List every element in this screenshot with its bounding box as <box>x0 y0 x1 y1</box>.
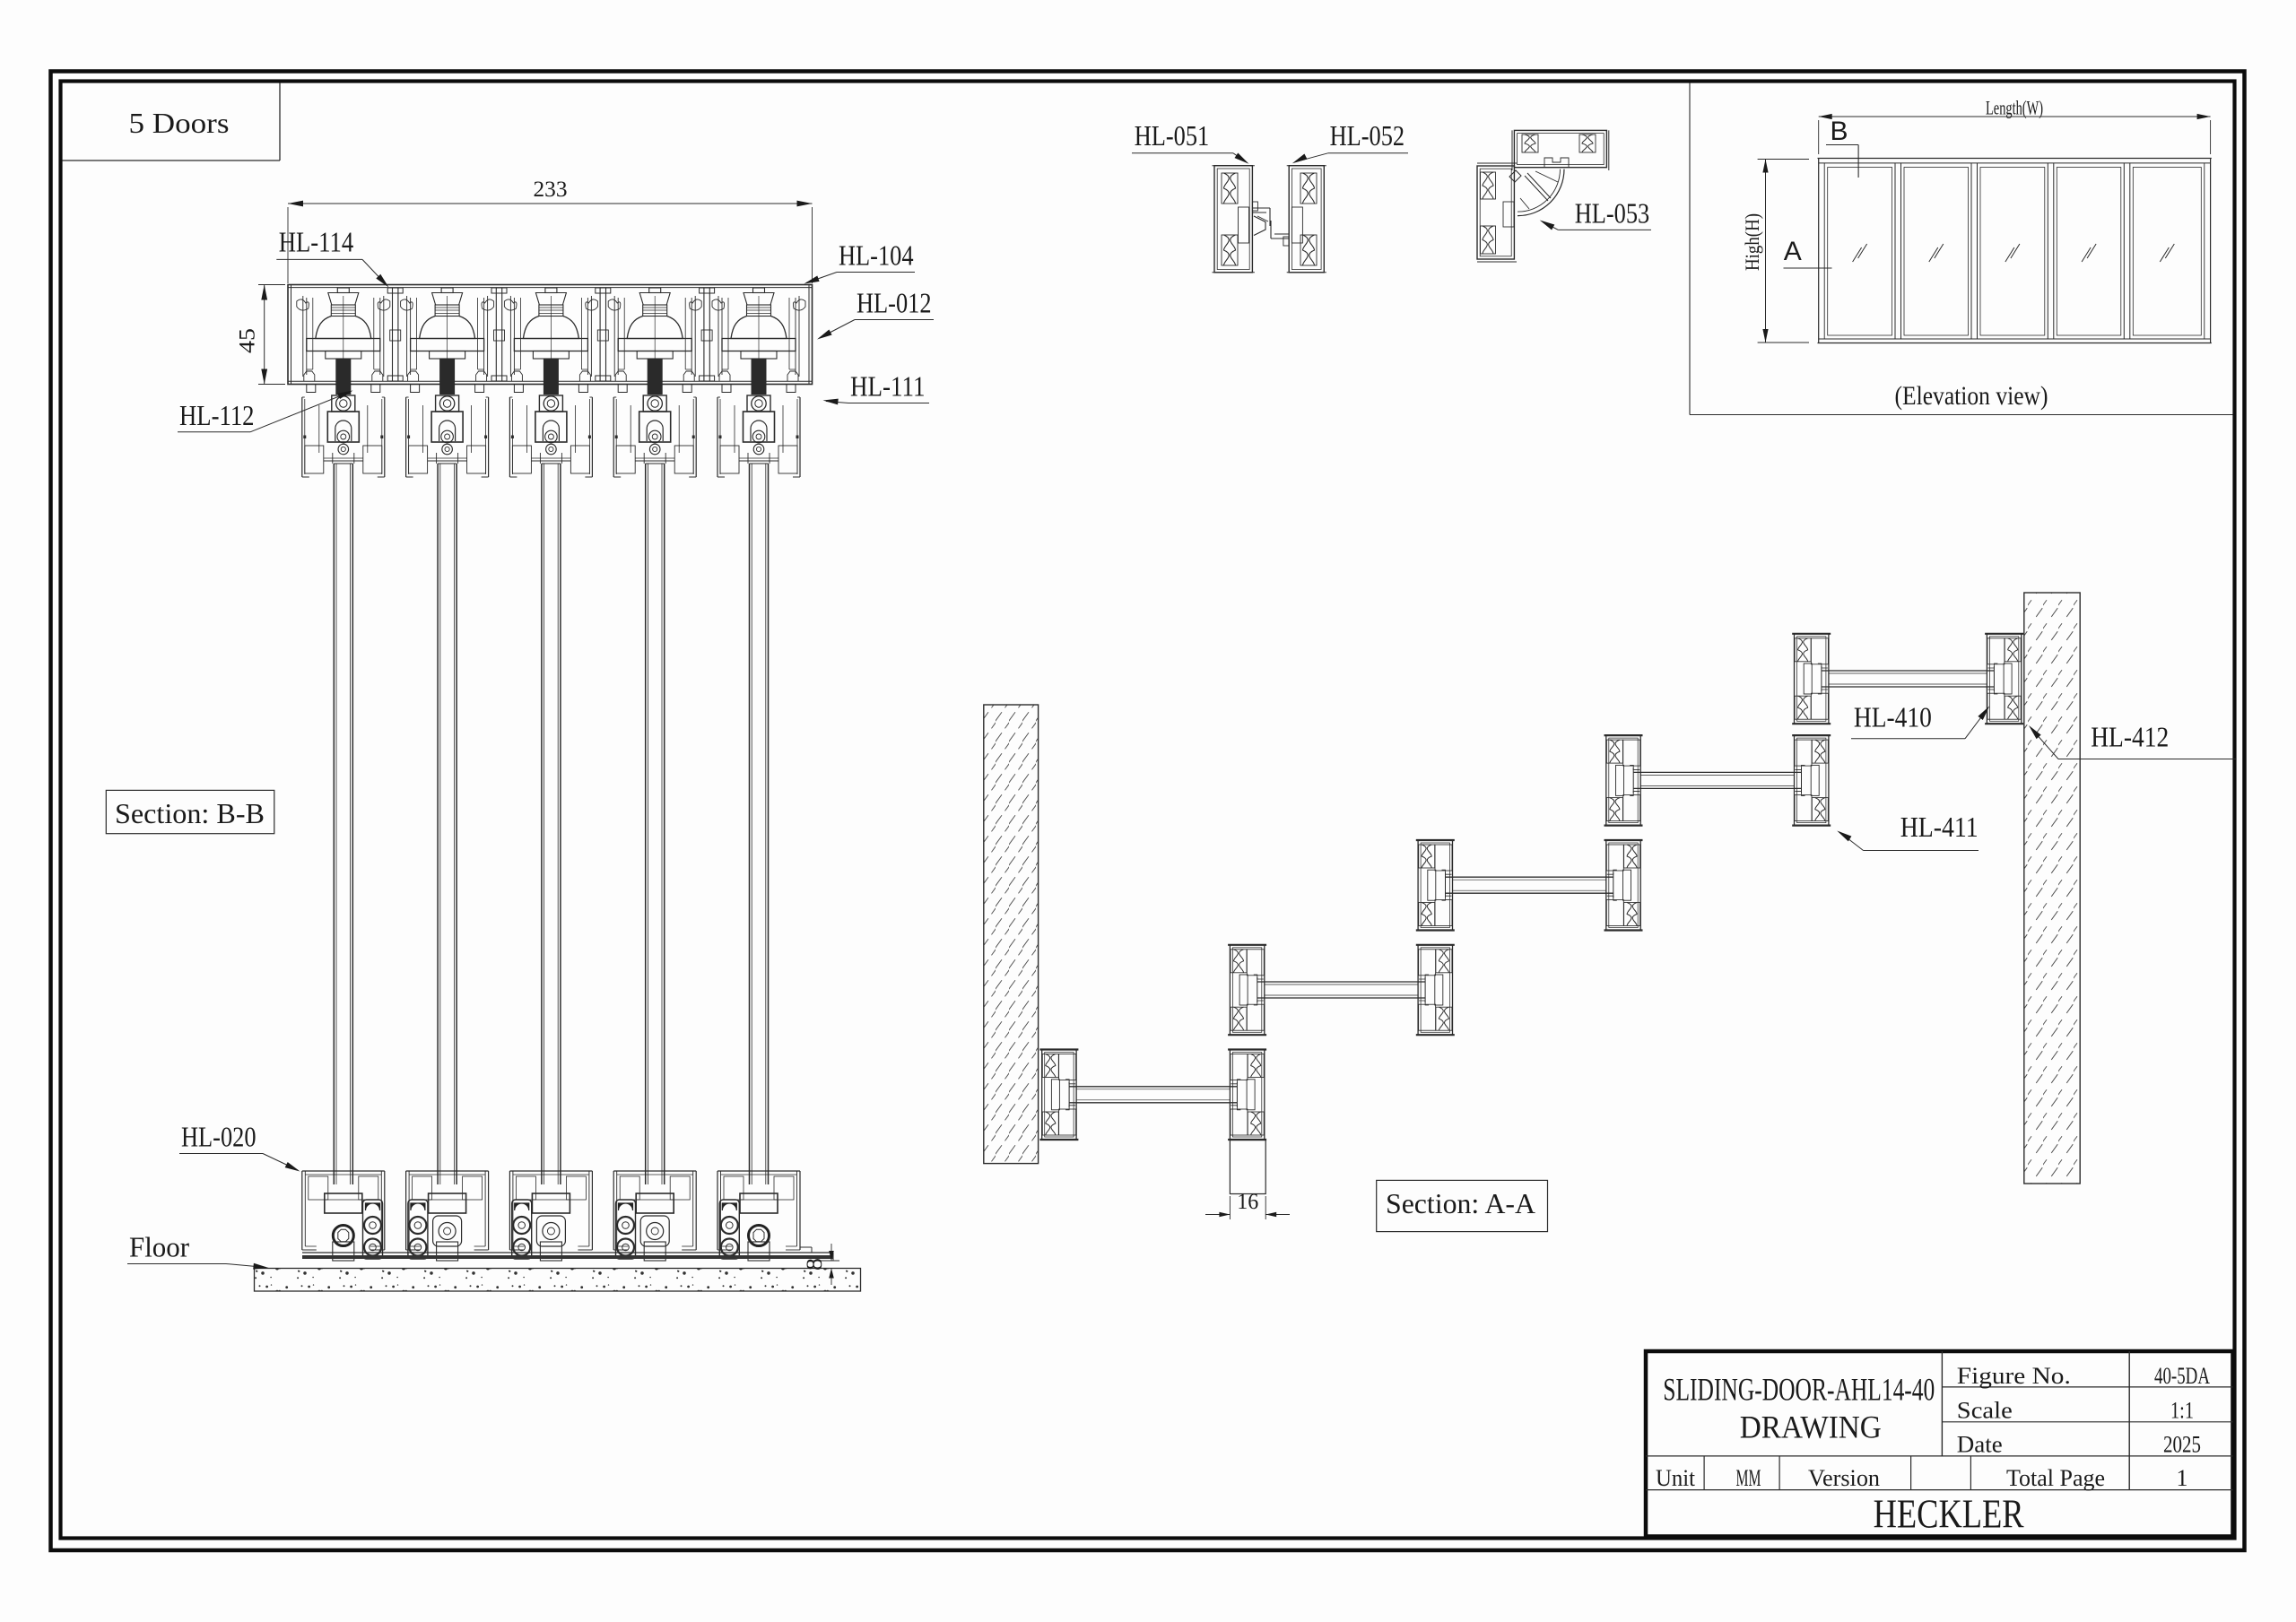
hanger bracket 4 (HL-112 bolt and carriage) <box>631 395 679 455</box>
svg-text:Length(W): Length(W) <box>1986 97 2043 119</box>
roller carriage 5 in track <box>712 288 805 395</box>
label HL-112 with leader <box>178 391 353 432</box>
door stile profile HL-051 (section) <box>1213 166 1255 273</box>
door top rail 2 (U channel) <box>406 397 489 477</box>
svg-text:HL-111: HL-111 <box>850 369 926 402</box>
door panel 3 (vertical section) <box>542 464 561 1184</box>
title block value 2025 <box>2163 1432 2201 1458</box>
svg-text:Unit: Unit <box>1656 1465 1696 1491</box>
svg-text:Version: Version <box>1808 1465 1880 1491</box>
view label box Section: A-A <box>1377 1180 1548 1231</box>
title block value 40-5DA <box>2154 1363 2210 1389</box>
roller carriage 4 in track <box>608 288 701 395</box>
bottom guide unit 1 (HL-020 rail section) <box>302 1171 385 1261</box>
door top rail 1 (U channel) <box>302 397 385 477</box>
bottom guide unit 5 (HL-020 rail section) <box>717 1171 800 1261</box>
svg-text:A: A <box>1784 237 1802 266</box>
elevation door leaf 1 <box>1828 168 1892 336</box>
caption (Elevation view) <box>1895 381 2048 411</box>
hanger bracket 2 (HL-112 bolt and carriage) <box>423 395 472 455</box>
svg-text:HL-410: HL-410 <box>1854 701 1932 733</box>
label Floor with leader <box>127 1230 269 1269</box>
svg-text:45: 45 <box>236 328 260 353</box>
A-A door 2 glass bar <box>1257 977 1425 1002</box>
view label box Section: B-B <box>106 790 274 833</box>
label HL-012 with leader <box>817 286 934 339</box>
label HL-052 with leader <box>1292 119 1408 163</box>
svg-text:Total Page: Total Page <box>2006 1465 2105 1491</box>
A-A door 2 right stile <box>1416 945 1455 1036</box>
label HL-051 with leader <box>1132 119 1249 164</box>
svg-text:Figure No.: Figure No. <box>1957 1363 2071 1389</box>
label B with pointer <box>1826 117 1858 178</box>
title block field Total Page <box>2006 1465 2105 1491</box>
door panel 2 (vertical section) <box>438 464 457 1184</box>
label HL-053 with leader <box>1540 196 1651 230</box>
svg-text:Scale: Scale <box>1957 1398 2013 1424</box>
door stile profile HL-052 (section) <box>1287 166 1326 273</box>
elevation door leaf 5 <box>2133 168 2201 336</box>
track cell dividers (I-beam webs) <box>387 288 714 381</box>
right wall (hatched masonry) <box>2024 593 2080 1184</box>
svg-text:HL-411: HL-411 <box>1900 811 1979 843</box>
elevation view enclosure box <box>1690 83 2233 415</box>
title block frame <box>1646 1351 2233 1537</box>
svg-text:High(H): High(H) <box>1741 213 1763 271</box>
svg-text:16: 16 <box>1237 1190 1258 1214</box>
svg-text:Section: B-B: Section: B-B <box>115 797 265 829</box>
interlock hooks between HL-051 and HL-052 <box>1252 202 1289 246</box>
A-A door 1 left stile <box>1039 1050 1078 1141</box>
label HL-104 with leader <box>804 239 916 283</box>
top track HL-104 outer profile <box>288 285 813 393</box>
roller carriage 2 in track <box>401 288 494 395</box>
svg-text:HL-020: HL-020 <box>181 1120 257 1152</box>
svg-text:HL-012: HL-012 <box>857 286 932 318</box>
elevation door leaf 3 <box>1980 168 2045 336</box>
A-A door 3 left stile <box>1416 840 1455 931</box>
title block field Date <box>1957 1432 2003 1458</box>
svg-text:HL-053: HL-053 <box>1575 196 1650 229</box>
title block field Version <box>1808 1465 1880 1491</box>
svg-text:DRAWING: DRAWING <box>1740 1409 1882 1444</box>
hanger bracket 3 (HL-112 bolt and carriage) <box>526 395 575 455</box>
elevation mullion 2 <box>1971 163 1978 339</box>
title block value 1 <box>2177 1465 2188 1491</box>
company name HECKLER <box>1874 1492 2024 1537</box>
A-A door 5 right stile <box>1985 634 2023 724</box>
label HL-412 with leader <box>2029 721 2236 759</box>
svg-text:8: 8 <box>803 1258 827 1271</box>
A-A door 4 left stile <box>1605 735 1643 826</box>
bottom extension piece below first interlock (16mm profile) <box>1205 1141 1290 1220</box>
svg-text:HL-104: HL-104 <box>839 239 914 271</box>
dimension 8 (floor gap) <box>803 1244 861 1285</box>
svg-text:1:1: 1:1 <box>2170 1398 2194 1424</box>
svg-text:HL-114: HL-114 <box>279 225 354 257</box>
roller carriage 3 in track <box>504 288 597 395</box>
svg-text:Floor: Floor <box>129 1230 189 1262</box>
svg-text:HL-052: HL-052 <box>1330 119 1405 152</box>
door top rail 3 (U channel) <box>509 397 592 477</box>
svg-text:5 Doors: 5 Doors <box>129 107 230 139</box>
A-A door 4 glass bar <box>1633 768 1801 793</box>
elevation door leaf 2 <box>1904 168 1969 336</box>
door panel 4 (vertical section) <box>646 464 665 1184</box>
A-A door 1 glass bar <box>1069 1082 1237 1107</box>
svg-text:B: B <box>1830 117 1848 146</box>
elevation mullion 3 <box>2048 163 2054 339</box>
svg-text:MM: MM <box>1736 1465 1761 1491</box>
door top rail 5 (U channel) <box>717 397 800 477</box>
corner profile HL-053 (quarter-round section) <box>1477 130 1609 262</box>
title block field Figure No. <box>1957 1363 2071 1389</box>
hanger bracket 1 (HL-112 bolt and carriage) <box>319 395 368 455</box>
A-A door 4 right stile <box>1792 735 1831 826</box>
A-A door 3 glass bar <box>1446 872 1613 898</box>
A-A door 5 glass bar <box>1822 666 1994 691</box>
label HL-020 with leader <box>179 1120 300 1171</box>
floor slab (concrete) <box>255 1269 861 1292</box>
drawing title cell "5 Doors" <box>63 83 281 161</box>
title block field Scale <box>1957 1398 2013 1424</box>
svg-text:233: 233 <box>534 178 568 202</box>
svg-text:HL-112: HL-112 <box>179 399 255 431</box>
bottom rail base line and gasket strip <box>302 1247 833 1261</box>
label A with section line <box>1784 237 1832 268</box>
elevation door frame and panels <box>1818 159 2212 343</box>
door panel 5 (vertical section) <box>750 464 769 1184</box>
hanger bracket 5 (HL-112 bolt and carriage) <box>735 395 783 455</box>
svg-text:(Elevation view): (Elevation view) <box>1895 381 2048 411</box>
label HL-114 with leader <box>276 225 388 287</box>
title block value 1:1 <box>2170 1398 2194 1424</box>
title block field Unit <box>1656 1465 1696 1491</box>
bottom guide unit 3 (HL-020 rail section) <box>509 1171 592 1261</box>
dimension High(H) <box>1741 160 1809 343</box>
A-A door 5 left stile <box>1792 634 1831 724</box>
bottom guide unit 2 (HL-020 rail section) <box>406 1171 489 1261</box>
svg-text:1: 1 <box>2177 1465 2188 1491</box>
label HL-111 with leader <box>823 369 930 404</box>
dimension 45 (track height) <box>236 285 286 385</box>
bottom guide unit 4 (HL-020 rail section) <box>613 1171 696 1261</box>
svg-text:2025: 2025 <box>2163 1432 2201 1458</box>
A-A door 3 right stile <box>1605 840 1643 931</box>
title text SLIDING-DOOR-AHL14-40 DRAWING <box>1663 1372 1935 1445</box>
door top rail 4 (U channel) <box>613 397 696 477</box>
svg-text:HECKLER: HECKLER <box>1874 1492 2024 1537</box>
title block value MM <box>1736 1465 1761 1491</box>
dimension 233 (track width) <box>288 178 813 283</box>
dimension Length(W) <box>1819 97 2211 155</box>
label HL-411 with leader <box>1837 811 1979 851</box>
svg-text:40-5DA: 40-5DA <box>2154 1363 2210 1389</box>
A-A door 2 left stile <box>1228 945 1266 1036</box>
A-A door 1 right stile <box>1228 1050 1266 1141</box>
svg-text:Section: A-A: Section: A-A <box>1386 1187 1535 1219</box>
door panel 1 (vertical section) <box>334 464 352 1184</box>
elevation mullion 1 <box>1895 163 1901 339</box>
left wall (hatched masonry) <box>984 705 1039 1164</box>
elevation door leaf 4 <box>2057 168 2121 336</box>
elevation mullion 4 <box>2124 163 2130 339</box>
svg-text:Date: Date <box>1957 1432 2003 1458</box>
svg-text:HL-051: HL-051 <box>1135 119 1210 152</box>
roller carriage 1 in track <box>297 288 390 395</box>
svg-text:SLIDING-DOOR-AHL14-40: SLIDING-DOOR-AHL14-40 <box>1663 1372 1935 1408</box>
svg-text:HL-412: HL-412 <box>2091 721 2169 753</box>
label HL-410 with leader <box>1851 701 1989 739</box>
